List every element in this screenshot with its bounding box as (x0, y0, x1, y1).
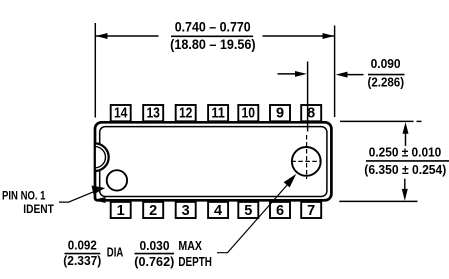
pin 6 (270, 202, 290, 219)
svg-text:DEPTH: DEPTH (178, 254, 212, 269)
svg-text:1: 1 (117, 203, 125, 219)
pin 10 (238, 105, 258, 122)
0.090 dimension arrows (278, 71, 307, 77)
svg-text:14: 14 (114, 106, 128, 122)
pin 9 (270, 105, 290, 122)
depth circle horizontal centerline (291, 160, 321, 162)
pin 13 (143, 105, 163, 122)
up arrow (403, 122, 409, 146)
top dimension line right (263, 33, 335, 39)
pin 1 (111, 202, 131, 219)
svg-text:11: 11 (211, 106, 225, 122)
dimple dia dimension text (63, 238, 101, 268)
0.090 dimension text (368, 56, 405, 89)
svg-text:9: 9 (276, 106, 284, 122)
svg-text:0.250 ± 0.010: 0.250 ± 0.010 (369, 145, 442, 160)
svg-text:(6.350 ± 0.254): (6.350 ± 0.254) (364, 162, 446, 177)
svg-text:7: 7 (307, 203, 315, 219)
svg-text:DIA: DIA (107, 245, 124, 260)
svg-text:3: 3 (182, 203, 190, 219)
svg-text:0.740 – 0.770: 0.740 – 0.770 (175, 19, 251, 34)
depth dimension text (134, 238, 174, 269)
svg-text:4: 4 (214, 203, 222, 219)
svg-text:0.092: 0.092 (68, 238, 97, 253)
body height top reference line (340, 120, 422, 122)
svg-text:8: 8 (307, 106, 315, 122)
svg-text:(2.337): (2.337) (63, 253, 101, 268)
max depth label (178, 238, 212, 269)
pin 7 (301, 202, 321, 219)
svg-text:IDENT: IDENT (23, 202, 54, 216)
top dimension text (170, 19, 256, 52)
depth circle (292, 147, 321, 176)
svg-text:PIN NO. 1: PIN NO. 1 (2, 189, 46, 203)
pin 3 (176, 202, 196, 219)
svg-text:0.030: 0.030 (140, 238, 170, 253)
right extension line (334, 26, 336, 118)
svg-text:MAX: MAX (178, 238, 202, 253)
svg-text:(0.762): (0.762) (134, 254, 174, 269)
pin 4 (208, 202, 228, 219)
pin 8 center extension line (307, 62, 309, 132)
svg-text:0.090: 0.090 (371, 56, 401, 71)
svg-text:2: 2 (149, 203, 157, 219)
svg-text:5: 5 (244, 203, 252, 219)
svg-text:6: 6 (276, 203, 284, 219)
svg-text:(2.286): (2.286) (368, 74, 405, 89)
pin no.1 ident label (2, 189, 54, 217)
pin no.1 ident dimple (107, 170, 127, 190)
pin no.1 ident leader (59, 186, 105, 203)
package body outer outline (95, 122, 331, 200)
svg-text:12: 12 (179, 106, 193, 122)
body height dimension text (364, 145, 449, 177)
depth circle vertical centerline (306, 135, 308, 179)
pin 5 (238, 202, 258, 219)
pin 14 (111, 105, 131, 122)
down arrow (402, 179, 408, 201)
svg-text:10: 10 (242, 106, 256, 122)
left extension line (94, 23, 96, 118)
max depth leader (217, 174, 296, 253)
top dimension line left (96, 33, 159, 39)
pin 2 (143, 202, 163, 219)
side notch (95, 143, 109, 171)
pin 11 (208, 105, 228, 122)
body height bottom reference line (339, 200, 417, 202)
bottom edge arrow (93, 197, 105, 203)
svg-text:(18.80 – 19.56): (18.80 – 19.56) (170, 37, 256, 52)
package body inner outline (100, 127, 327, 197)
svg-text:13: 13 (146, 106, 160, 122)
pin 8 (301, 105, 321, 122)
pin 12 (176, 105, 196, 122)
